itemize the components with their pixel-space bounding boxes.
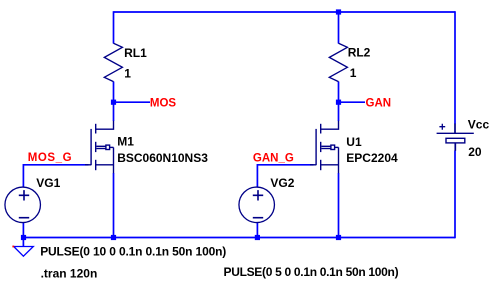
- svg-text:MOS_G: MOS_G: [28, 152, 72, 164]
- wire right rail lower: [454, 151, 456, 239]
- svg-text:VG2: VG2: [270, 176, 294, 190]
- wire M1 gate to VG1: [23, 165, 88, 188]
- svg-text:.tran 120n: .tran 120n: [41, 266, 98, 280]
- source VG1: [5, 187, 41, 223]
- wire bottom rail: [24, 237, 456, 239]
- svg-text:1: 1: [124, 67, 131, 81]
- junction GAN node: [336, 100, 341, 105]
- junction bottom U1 source: [336, 235, 341, 240]
- resistor RL2: [329, 43, 347, 81]
- svg-text:PULSE(0 10 0 0.1n 0.1n 50n 100: PULSE(0 10 0 0.1n 0.1n 50n 100n): [40, 244, 226, 258]
- svg-text:BSC060N10NS3: BSC060N10NS3: [117, 151, 208, 165]
- source VG2: [239, 187, 275, 223]
- svg-text:Vcc: Vcc: [468, 117, 490, 131]
- transistor M1 (NMOS): [85, 121, 114, 174]
- wire right branch RL2 to U1 drain: [338, 82, 340, 122]
- ground: [14, 247, 34, 257]
- svg-text:U1: U1: [346, 135, 362, 149]
- svg-text:GAN_G: GAN_G: [253, 152, 294, 164]
- source Vcc battery: [437, 124, 474, 151]
- wire ground stub: [22, 238, 24, 247]
- wire left branch top: [113, 11, 115, 43]
- svg-text:GAN: GAN: [366, 97, 392, 109]
- wire left branch RL1 to M1 drain: [113, 82, 115, 122]
- svg-text:MOS: MOS: [150, 97, 177, 109]
- transistor U1 (NMOS): [310, 121, 339, 174]
- svg-text:RL1: RL1: [124, 46, 147, 60]
- wire right rail upper: [454, 11, 456, 124]
- ground red tick: [12, 246, 14, 248]
- wire right branch top: [338, 12, 340, 44]
- junction top rail / RL2 branch: [336, 9, 341, 14]
- wire VG1 minus to bottom: [22, 222, 24, 237]
- svg-text:20: 20: [468, 145, 482, 159]
- svg-text:RL2: RL2: [348, 46, 371, 60]
- svg-text:EPC2204: EPC2204: [346, 151, 398, 165]
- svg-text:VG1: VG1: [36, 176, 60, 190]
- resistor RL1: [104, 43, 122, 81]
- junction bottom M1 source: [111, 235, 116, 240]
- junction MOS node: [111, 100, 116, 105]
- wire GAN label stub: [339, 101, 366, 103]
- svg-text:PULSE(0 5 0 0.1n 0.1n 50n 100n: PULSE(0 5 0 0.1n 0.1n 50n 100n): [224, 265, 399, 279]
- wire MOS label stub: [114, 101, 151, 103]
- junction bottom VG1/ground: [21, 235, 26, 240]
- svg-text:1: 1: [350, 66, 357, 80]
- junction bottom VG2: [255, 235, 260, 240]
- wire U1 source to bottom: [338, 173, 340, 238]
- wire top rail: [114, 11, 456, 13]
- wire U1 gate to VG2: [257, 165, 313, 188]
- svg-text:M1: M1: [117, 134, 134, 148]
- wire M1 source to bottom: [113, 173, 115, 238]
- wire VG2 minus to bottom: [256, 222, 258, 237]
